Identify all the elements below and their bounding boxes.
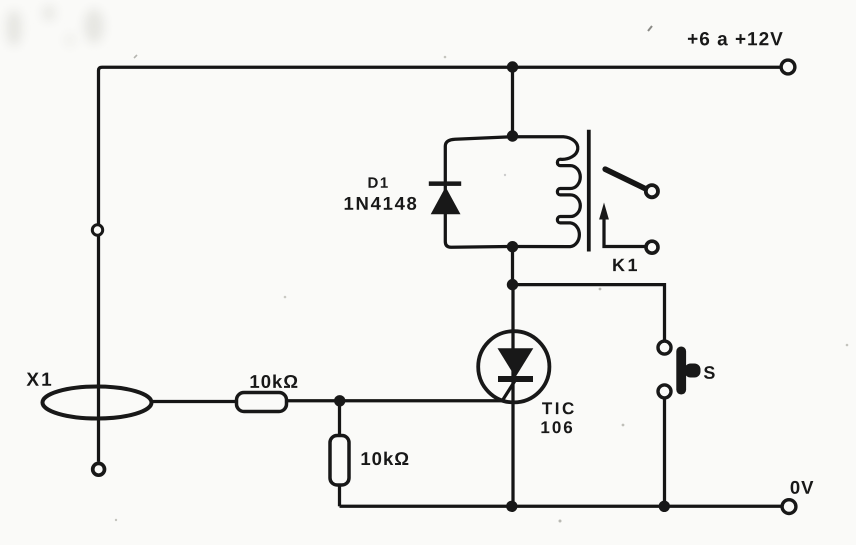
svg-text:1N4148: 1N4148 — [344, 193, 419, 214]
svg-text:106: 106 — [540, 418, 574, 437]
svg-text:X1: X1 — [26, 370, 53, 391]
svg-text:TIC: TIC — [542, 399, 577, 418]
svg-text:10kΩ: 10kΩ — [360, 448, 410, 469]
svg-text:D1: D1 — [368, 175, 390, 192]
svg-text:+6 a +12V: +6 a +12V — [687, 29, 784, 50]
svg-text:K1: K1 — [612, 255, 640, 275]
svg-text:10kΩ: 10kΩ — [249, 371, 299, 392]
svg-text:S: S — [703, 363, 715, 383]
svg-text:0V: 0V — [790, 477, 815, 498]
